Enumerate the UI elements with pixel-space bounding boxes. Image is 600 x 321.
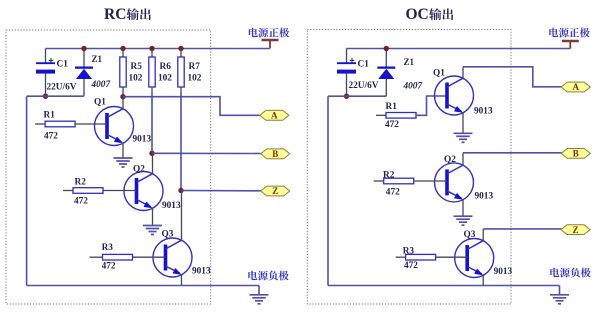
port B (RC) bbox=[261, 149, 290, 159]
label power positive (RC) bbox=[249, 28, 289, 38]
junction R6 top rail (RC) bbox=[149, 46, 154, 51]
resistor R3 (RC) bbox=[90, 254, 133, 260]
svg-text:Q3: Q3 bbox=[464, 230, 476, 240]
power port VCC bar (RC) bbox=[262, 40, 279, 48]
svg-text:RC: RC bbox=[104, 6, 126, 23]
svg-text:9013: 9013 bbox=[192, 267, 211, 277]
capacitor C1 (RC) bbox=[36, 49, 55, 97]
transistor Q3 (OC) bbox=[436, 229, 494, 286]
wire Q1 collector to port A (OC) bbox=[463, 67, 561, 87]
svg-text:4007: 4007 bbox=[403, 82, 423, 92]
title RC output chinese bbox=[127, 8, 151, 20]
svg-text:472: 472 bbox=[385, 120, 399, 130]
svg-text:R6: R6 bbox=[160, 62, 172, 72]
title OC output chinese bbox=[429, 8, 453, 20]
label power positive (OC) bbox=[549, 28, 589, 38]
svg-text:A: A bbox=[271, 111, 278, 121]
wire bottom negative rail (OC) bbox=[328, 285, 560, 287]
svg-text:R3: R3 bbox=[403, 247, 415, 257]
capacitor C1 (OC) bbox=[337, 49, 356, 97]
svg-text:102: 102 bbox=[129, 74, 143, 84]
svg-text:Q1: Q1 bbox=[94, 98, 106, 108]
svg-text:22U/6V: 22U/6V bbox=[349, 81, 379, 91]
svg-text:C1: C1 bbox=[57, 60, 69, 70]
port B (OC) bbox=[561, 149, 590, 159]
svg-text:R1: R1 bbox=[44, 111, 56, 121]
resistor R5 bbox=[120, 49, 126, 93]
wire node B to port B (RC) bbox=[152, 152, 261, 154]
svg-text:OC: OC bbox=[406, 6, 429, 23]
svg-text:Q1: Q1 bbox=[433, 69, 445, 79]
junction node Z (RC) bbox=[178, 188, 183, 193]
wire R7 bottom to node Z bbox=[180, 93, 182, 191]
svg-text:472: 472 bbox=[102, 261, 116, 271]
ground Q1 emitter (RC) bbox=[114, 158, 133, 167]
svg-text:R7: R7 bbox=[189, 62, 201, 72]
svg-text:9013: 9013 bbox=[133, 135, 152, 145]
wire left rail down (RC) bbox=[26, 96, 28, 285]
wire R5 bottom to node A bbox=[122, 93, 124, 97]
port Z (OC) bbox=[561, 225, 590, 235]
OC circuit dashed boundary box bbox=[307, 30, 511, 305]
wire stub to power port (RC) bbox=[269, 48, 271, 49]
port A (RC) bbox=[260, 110, 289, 120]
transistor Q2 (RC) bbox=[103, 153, 163, 225]
junction node B (RC) bbox=[149, 151, 154, 156]
transistor Q3 (RC) bbox=[133, 191, 193, 286]
svg-text:B: B bbox=[272, 149, 278, 159]
wire negative node C1-Z1 (OC) bbox=[328, 95, 386, 97]
svg-text:Z1: Z1 bbox=[92, 54, 103, 64]
svg-text:472: 472 bbox=[404, 261, 418, 271]
ground power negative (RC) bbox=[250, 286, 269, 304]
wire left rail down (OC) bbox=[327, 96, 329, 285]
ground power negative (OC) bbox=[550, 286, 569, 304]
resistor R1 (RC) bbox=[35, 121, 75, 127]
wire R6 bottom to node B bbox=[151, 93, 153, 154]
ground Q1 emitter (OC) bbox=[454, 133, 473, 142]
junction node A (RC) bbox=[120, 94, 125, 99]
ground Q2 emitter (RC) bbox=[143, 226, 162, 235]
svg-text:Z: Z bbox=[572, 225, 578, 235]
port A (OC) bbox=[561, 82, 590, 92]
RC circuit dashed boundary box bbox=[6, 30, 211, 304]
transistor Q2 (OC) bbox=[414, 153, 474, 216]
wire Q3 collector to port Z (OC) bbox=[483, 228, 561, 230]
label power negative (OC) bbox=[550, 268, 590, 278]
wire bottom negative rail (RC) bbox=[27, 285, 259, 287]
svg-text:Z: Z bbox=[272, 186, 278, 196]
resistor R2 (OC) bbox=[374, 178, 414, 184]
svg-text:R1: R1 bbox=[386, 102, 398, 112]
zener diode Z1 (RC) bbox=[75, 49, 93, 97]
wire negative node C1-Z1 (RC) bbox=[27, 95, 84, 97]
svg-text:9013: 9013 bbox=[475, 192, 494, 202]
svg-text:22U/6V: 22U/6V bbox=[47, 83, 77, 93]
resistor R6 bbox=[149, 49, 155, 93]
svg-text:R5: R5 bbox=[131, 62, 143, 72]
resistor R2 (RC) bbox=[63, 188, 103, 194]
svg-text:9013: 9013 bbox=[474, 107, 493, 117]
svg-text:9013: 9013 bbox=[162, 201, 181, 211]
junction Z1 top rail (RC) bbox=[81, 46, 86, 51]
svg-text:Q3: Q3 bbox=[162, 230, 174, 240]
wire node A to port A (RC) bbox=[123, 97, 260, 116]
wire stub to power port (OC) bbox=[569, 48, 571, 49]
svg-text:R2: R2 bbox=[383, 171, 395, 181]
port Z (RC) bbox=[261, 186, 290, 196]
power port VCC bar (OC) bbox=[562, 41, 579, 49]
svg-text:4007: 4007 bbox=[91, 80, 111, 90]
svg-text:C1: C1 bbox=[358, 60, 370, 70]
junction C1 bottom (OC) bbox=[344, 94, 349, 99]
label power negative (RC) bbox=[248, 271, 288, 281]
wire top power rail (OC) bbox=[347, 48, 571, 50]
ground Q2 emitter (OC) bbox=[454, 216, 473, 225]
transistor Q1 (RC) bbox=[75, 97, 133, 158]
wire R1 to Q1 base (OC) bbox=[416, 96, 447, 115]
svg-text:Q2: Q2 bbox=[444, 155, 456, 165]
wire node Z to port Z (RC) bbox=[181, 190, 261, 192]
svg-text:R2: R2 bbox=[75, 178, 87, 188]
svg-text:102: 102 bbox=[188, 74, 202, 84]
zener diode Z1 (OC) bbox=[377, 49, 395, 97]
junction R5 top rail (RC) bbox=[120, 46, 125, 51]
svg-text:9013: 9013 bbox=[494, 267, 513, 277]
svg-text:R3: R3 bbox=[102, 243, 114, 253]
resistor R3 (OC) bbox=[396, 254, 436, 260]
svg-text:472: 472 bbox=[44, 132, 58, 142]
wire top power rail (RC) bbox=[46, 48, 271, 50]
resistor R1 (OC) bbox=[376, 113, 416, 119]
svg-text:102: 102 bbox=[158, 74, 172, 84]
svg-text:B: B bbox=[573, 149, 579, 159]
svg-text:A: A bbox=[572, 82, 579, 92]
junction R7 top rail (RC) bbox=[178, 46, 183, 51]
resistor R7 bbox=[178, 49, 184, 93]
wire Q2 collector to port B (OC) bbox=[463, 152, 561, 154]
junction C1 bottom (RC) bbox=[43, 94, 48, 99]
svg-text:Q2: Q2 bbox=[133, 165, 145, 175]
svg-text:Z1: Z1 bbox=[404, 57, 415, 67]
junction Z1 top rail (OC) bbox=[384, 46, 389, 51]
svg-text:472: 472 bbox=[74, 197, 88, 207]
transistor Q1 (OC) bbox=[435, 67, 474, 134]
svg-text:472: 472 bbox=[386, 188, 400, 198]
